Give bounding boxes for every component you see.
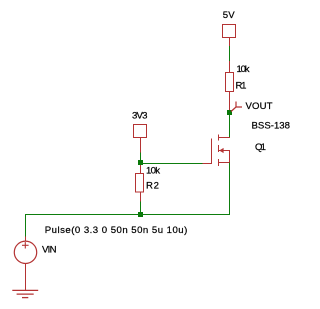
node VOUT junction (227, 110, 232, 115)
port 3V3 (134, 125, 147, 153)
node bottom rail junction (138, 212, 143, 217)
svg-text:VOUT: VOUT (246, 101, 273, 112)
svg-text:10k: 10k (146, 165, 160, 176)
wire VOUT node to Q1 drain (229, 115, 231, 138)
svg-text:BSS-138: BSS-138 (252, 120, 291, 131)
wire Q1 source to bottom rail (229, 163, 231, 216)
resistor R1 (226, 61, 234, 111)
wire 5V to R1 (229, 46, 231, 61)
ground (12, 290, 38, 297)
resistor R2 (136, 165, 144, 202)
port 5V (223, 25, 236, 47)
wire bottom rail (25, 214, 230, 216)
svg-text:R1: R1 (236, 80, 247, 91)
wire 3V3 to node (140, 153, 142, 161)
svg-text:VIN: VIN (42, 245, 57, 256)
svg-text:3V3: 3V3 (132, 110, 148, 121)
svg-text:Pulse(0 3.3 0 50n 50n 5u 10u): Pulse(0 3.3 0 50n 50n 5u 10u) (45, 225, 188, 236)
wire R2 to bottom rail (140, 202, 142, 213)
label pointer VOUT (231, 102, 242, 112)
source VIN (14, 237, 36, 291)
svg-text:R2: R2 (146, 180, 159, 191)
node 3V3/R2/gate junction (138, 160, 143, 165)
svg-text:Q1: Q1 (255, 142, 266, 153)
svg-text:10k: 10k (237, 64, 250, 75)
svg-text:5V: 5V (223, 10, 236, 21)
transistor Q1 (BSS-138 NMOS) (203, 135, 231, 167)
wire rail to VIN (25, 215, 27, 237)
body arrow of Q1 (219, 148, 223, 153)
wire gate (node to Q1 gate) (141, 163, 203, 165)
